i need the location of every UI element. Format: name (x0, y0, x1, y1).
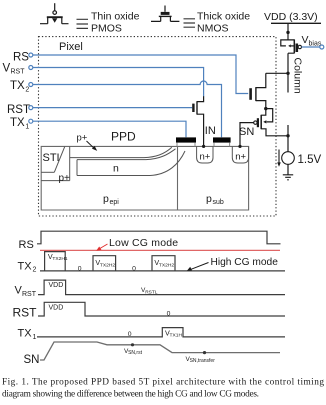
svg-text:SN: SN (24, 354, 40, 366)
transfer gate TX1 (black bar) (176, 137, 196, 142)
svg-text:V: V (3, 62, 11, 74)
svg-text:TX: TX (10, 80, 25, 92)
svg-text:TX1H: TX1H (170, 333, 183, 339)
wire Vbias blue (302, 46, 320, 48)
source-follower PMOS (240, 109, 288, 147)
svg-text:VDD: VDD (49, 282, 64, 289)
svg-text:diagram showing the difference: diagram showing the difference between t… (2, 388, 259, 399)
n region of PPD (77, 149, 185, 176)
svg-text:RST: RST (13, 306, 38, 320)
svg-text:0: 0 (78, 266, 82, 273)
svg-text:RS: RS (19, 239, 34, 251)
wire RST (33, 107, 192, 109)
svg-text:sub: sub (213, 199, 224, 206)
wire VRST (33, 68, 204, 97)
svg-text:p: p (103, 193, 109, 205)
waveform TX2 (40, 252, 285, 271)
pixel dashed box (39, 37, 277, 216)
p+ pinning layer (70, 147, 172, 157)
svg-text:Column: Column (292, 58, 304, 94)
svg-text:TX: TX (18, 260, 33, 272)
svg-text:RS: RS (13, 52, 29, 64)
node column junction (286, 72, 289, 75)
svg-text:Low CG mode: Low CG mode (109, 237, 178, 249)
svg-text:TX: TX (18, 327, 33, 339)
svg-text:p+: p+ (77, 133, 88, 144)
svg-text:TX2H1: TX2H1 (52, 256, 68, 262)
svg-text:Thin oxide: Thin oxide (91, 11, 140, 23)
svg-text:p: p (206, 193, 212, 205)
STI region (41, 146, 69, 180)
node SF source junction (286, 134, 289, 137)
svg-text:RST: RST (11, 68, 26, 75)
svg-text:NMOS: NMOS (197, 23, 229, 35)
wire RS (33, 55, 248, 94)
svg-text:RST: RST (7, 104, 30, 116)
svg-text:High CG mode: High CG mode (211, 257, 279, 268)
current source 1.5V (282, 152, 295, 165)
svg-text:n+: n+ (200, 152, 211, 163)
node SN contact (238, 145, 241, 148)
svg-text:RST: RST (22, 291, 37, 298)
svg-text:Pixel: Pixel (59, 41, 83, 53)
svg-text:SN,rst: SN,rst (128, 350, 143, 356)
svg-text:TX2H2: TX2H2 (159, 262, 175, 268)
legend thin-oxide PMOS symbol (40, 3, 69, 24)
svg-text:Thick oxide: Thick oxide (197, 11, 250, 23)
terminal Vbias (320, 45, 324, 49)
svg-text:n+: n+ (235, 152, 246, 163)
svg-text:VDD (3.3V): VDD (3.3V) (264, 11, 318, 23)
wire TX1 (33, 121, 186, 137)
svg-text:p+: p+ (59, 173, 71, 184)
n+ diffusion IN (197, 146, 213, 163)
svg-text:V: V (302, 34, 309, 46)
wire VDD stub (287, 23, 289, 32)
svg-text:PPD: PPD (111, 130, 136, 144)
wire column lower segment (287, 125, 289, 136)
ground (283, 175, 293, 180)
PPD cross-section outer box (41, 146, 248, 210)
terminal TX2 (29, 83, 33, 87)
transfer gate TX2 (black bar) (213, 137, 231, 142)
svg-text:RSTL: RSTL (145, 289, 158, 295)
row-select transistor (251, 73, 266, 108)
terminal RS (29, 53, 33, 57)
waveform RS (37, 231, 281, 244)
node IN contact (202, 145, 205, 148)
svg-text:2: 2 (25, 86, 29, 93)
node SN transfer sample (203, 351, 206, 354)
wire RS drain to column (266, 72, 288, 74)
svg-text:1: 1 (25, 123, 29, 130)
svg-text:Fig. 1. The proposed PPD base: Fig. 1. The proposed PPD based 5T pixel … (2, 377, 324, 387)
legend thick-oxide NMOS symbol (151, 6, 179, 22)
svg-text:epi: epi (110, 199, 120, 206)
svg-text:VDD: VDD (49, 305, 64, 312)
svg-text:TX2H2: TX2H2 (100, 262, 116, 268)
svg-text:1: 1 (33, 334, 37, 341)
legend thin-oxide equivalence bars (77, 19, 89, 28)
svg-text:1.5V: 1.5V (298, 154, 322, 166)
svg-text:PMOS: PMOS (91, 23, 122, 35)
red low CG level line (40, 249, 280, 251)
bias PMOS transistor (281, 32, 297, 92)
legend thick-oxide equivalence bars (184, 19, 196, 27)
svg-text:TX: TX (10, 117, 25, 129)
reset transistor (193, 96, 203, 146)
terminal RST (29, 106, 33, 110)
waveform TX1 (37, 328, 285, 337)
terminal TX1 (29, 119, 33, 123)
node RS source junction (264, 107, 267, 110)
n+ diffusion SN (232, 146, 248, 163)
svg-text:0: 0 (128, 331, 132, 338)
svg-text:SN,transfer: SN,transfer (190, 358, 216, 364)
terminal VRST (29, 66, 33, 70)
wire TX2 with hop (33, 81, 222, 137)
svg-text:0: 0 (132, 266, 136, 273)
svg-text:n: n (113, 163, 119, 175)
svg-text:STI: STI (43, 152, 60, 164)
waveform SN (40, 342, 280, 360)
current direction arrow (278, 150, 280, 163)
svg-text:SN: SN (239, 126, 254, 138)
svg-text:IN: IN (205, 125, 216, 137)
svg-text:2: 2 (33, 267, 37, 274)
svg-text:0: 0 (167, 311, 171, 318)
waveform RST (38, 302, 285, 316)
VDD rail (271, 22, 321, 24)
waveform VRST (38, 280, 285, 295)
node VDD junction (286, 31, 289, 34)
node SN rst sample (131, 343, 134, 346)
